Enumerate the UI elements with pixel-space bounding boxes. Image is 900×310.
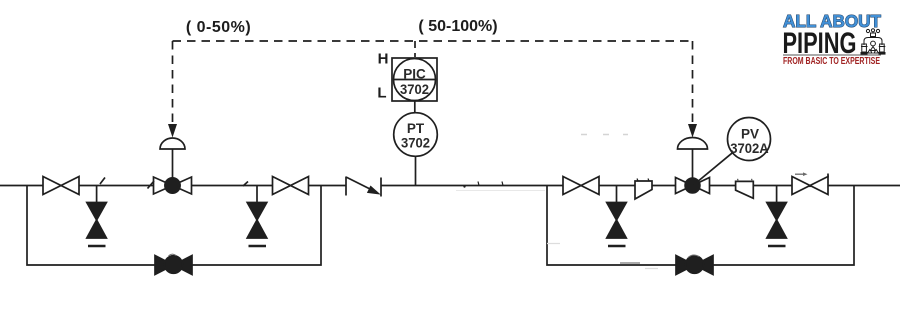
globe valve bypass left assembly bbox=[155, 256, 192, 275]
flange tick left of control valve left bbox=[148, 181, 155, 189]
gate valve V2 (right block valve, left assembly) bbox=[273, 177, 309, 195]
logo ALL ABOUT bbox=[783, 11, 881, 31]
tag text PV bbox=[741, 127, 759, 142]
svg-text:3702: 3702 bbox=[401, 136, 430, 151]
tag text 3702 (PIC) bbox=[400, 82, 429, 97]
control valve body right PV-3702A bbox=[676, 178, 710, 194]
wire PT to main pipe bbox=[415, 156, 417, 185]
svg-text:FROM BASIC TO EXPERTISE: FROM BASIC TO EXPERTISE bbox=[783, 56, 880, 67]
label L bbox=[377, 85, 386, 102]
svg-text:3702A: 3702A bbox=[730, 141, 769, 156]
label H bbox=[378, 51, 389, 68]
diaphragm actuator left bbox=[160, 138, 185, 179]
svg-text:3702: 3702 bbox=[400, 82, 429, 97]
wire bypass loop right assembly bbox=[547, 186, 854, 266]
wire PIC to PT bbox=[414, 101, 416, 113]
svg-text:( 0-50%): ( 0-50%) bbox=[186, 19, 251, 36]
svg-text:( 50-100%): ( 50-100%) bbox=[418, 18, 497, 35]
logo PIPING bbox=[783, 27, 857, 60]
tag text PT bbox=[407, 121, 425, 136]
logo tagline FROM BASIC TO EXPERTISE bbox=[783, 56, 880, 67]
drain valve D4 (right assembly, downstream) bbox=[767, 186, 787, 247]
instrument bubble PV-3702A bbox=[728, 118, 771, 161]
wire main pipe left segment bbox=[0, 185, 346, 187]
svg-text:PV: PV bbox=[741, 127, 759, 142]
tag text PIC bbox=[403, 67, 426, 82]
leader line PV-3702A to valve bbox=[694, 153, 733, 185]
svg-text:H: H bbox=[378, 51, 389, 68]
drain valve D1 (left assembly, upstream) bbox=[87, 186, 107, 247]
faint watermark remnants bbox=[169, 135, 700, 269]
signal line dashed horizontal bbox=[173, 40, 693, 42]
gate valve V4 (right block valve, right assembly) bbox=[792, 177, 828, 195]
drain valve D3 (right assembly, upstream) bbox=[607, 186, 627, 247]
flange tick near drain D1 bbox=[100, 178, 105, 185]
signal line dashed drop to right valve bbox=[692, 41, 694, 124]
signal arrowhead left actuator bbox=[168, 124, 177, 138]
transmitter PT-3702 circle bbox=[394, 113, 438, 157]
weld ticks on main pipe bbox=[463, 179, 752, 188]
label (50-100%) bbox=[418, 18, 497, 35]
tag text 3702A bbox=[730, 141, 769, 156]
flow arrow above gate valve V4 bbox=[795, 172, 828, 187]
flange tick near drain D2 bbox=[243, 182, 248, 187]
gate valve V1 (left block valve, left assembly) bbox=[43, 177, 79, 195]
label (0-50%) bbox=[186, 19, 251, 36]
wire main pipe right segment bbox=[381, 185, 900, 187]
signal arrowhead right actuator bbox=[688, 124, 697, 138]
reducer upstream of PV-3702A bbox=[635, 181, 652, 199]
logo divider line bbox=[783, 54, 881, 56]
svg-text:L: L bbox=[377, 85, 386, 102]
tag text 3702 (PT) bbox=[401, 136, 430, 151]
drain valve D2 (left assembly, downstream) bbox=[247, 186, 267, 247]
line break / flow arrow symbol bbox=[346, 177, 381, 197]
signal line dashed to PIC bbox=[414, 41, 416, 57]
reducer downstream of PV-3702A bbox=[736, 181, 754, 198]
control valve body left (0-50% valve) bbox=[154, 177, 192, 194]
logo pipe-figure icon bbox=[861, 29, 886, 55]
wire bypass loop left assembly bbox=[27, 186, 321, 266]
signal line dashed drop to left valve bbox=[172, 41, 174, 124]
diaphragm actuator right bbox=[678, 138, 708, 180]
svg-text:PT: PT bbox=[407, 121, 425, 136]
svg-text:PIC: PIC bbox=[403, 67, 426, 82]
globe valve bypass right assembly bbox=[676, 256, 713, 275]
gate valve V3 (left block valve, right assembly) bbox=[563, 177, 599, 195]
controller PIC-3702 shared display square bbox=[392, 58, 437, 101]
